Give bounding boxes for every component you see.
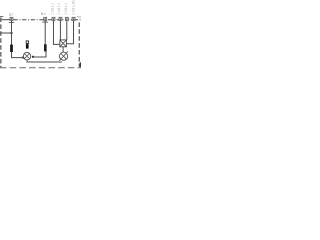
svg-text:1 N1 L1N1: 1 N1 L1N1	[71, 0, 75, 15]
svg-text:1 N1 L1: 1 N1 L1	[50, 3, 54, 15]
svg-text:1 N1 L1: 1 N1 L1	[57, 3, 61, 15]
svg-text:1 N1 L1: 1 N1 L1	[64, 3, 68, 15]
svg-text:N L: N L	[41, 12, 46, 16]
